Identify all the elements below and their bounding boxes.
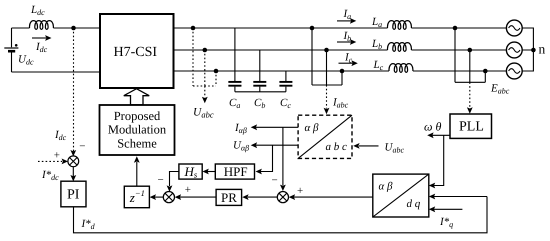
wire Idc dashed measurement — [73, 28, 75, 152]
node Eabc tap b — [468, 48, 473, 53]
summer sum0 — [68, 156, 79, 167]
node Uabc tap b — [203, 48, 208, 53]
box alphabeta-abc transform (dashed) — [298, 115, 352, 158]
inductor Lc — [389, 64, 413, 73]
svg-text:Modulation: Modulation — [108, 123, 167, 137]
svg-text:+: + — [54, 150, 60, 162]
svg-text:+: + — [297, 185, 303, 197]
wire Ialphabeta drop to sum2 — [282, 127, 284, 185]
svg-text:PLL: PLL — [459, 120, 484, 135]
arrow input Id* — [434, 196, 487, 198]
box PI — [61, 181, 86, 207]
svg-text:α β: α β — [305, 122, 320, 134]
summer sum1 — [163, 192, 174, 203]
wire phase B — [174, 49, 388, 51]
box PLL — [450, 114, 492, 138]
node Eabc tap a — [453, 26, 458, 31]
node Iabc tap b — [324, 48, 329, 53]
capacitor Cb — [259, 50, 261, 92]
svg-text:d q: d q — [407, 198, 421, 210]
capacitor Ca — [228, 28, 241, 92]
svg-text:a b c: a b c — [326, 141, 348, 153]
box Proposed Modulation Scheme — [100, 105, 175, 155]
wire capacitor star bus — [235, 91, 286, 93]
inductor Lb — [388, 43, 412, 52]
box HPF — [215, 164, 254, 179]
arrow input Iq* — [434, 208, 462, 210]
wire Eabc bracket — [455, 28, 485, 82]
wire sum2 to PR — [248, 196, 277, 198]
svg-text:HPF: HPF — [224, 164, 248, 179]
svg-text:PI: PI — [67, 188, 80, 203]
wire phase C right — [413, 70, 507, 72]
arrow Ib — [337, 41, 351, 43]
node Iabc tap c — [340, 69, 345, 74]
box Hs — [179, 164, 202, 179]
wire Eabc dotted arrow to PLL — [469, 82, 471, 108]
svg-text:α β: α β — [379, 181, 394, 193]
wire theta to dq block — [434, 135, 444, 185]
capacitor Cc — [285, 71, 287, 92]
wire from Ldc to H7-CSI — [53, 27, 100, 29]
box dq-alphabeta transform — [373, 174, 429, 217]
node dc link (junction dot) — [71, 26, 76, 31]
wire Iabc dotted arrow — [326, 85, 328, 109]
wire Uabc dotted arrow down — [204, 86, 206, 98]
box PR — [216, 189, 242, 205]
arrow Ic — [339, 62, 353, 64]
arrow z-1 to modulation — [136, 162, 138, 186]
svg-text:+: + — [185, 184, 191, 196]
svg-text:Scheme: Scheme — [117, 137, 157, 151]
svg-text:PR: PR — [221, 190, 237, 205]
inductor La — [388, 21, 412, 30]
wire Idc* dashed input — [38, 160, 62, 162]
wire dc bottom — [12, 71, 101, 73]
wire phase C — [174, 70, 390, 72]
wire Ualphabeta tap to HPF — [261, 145, 273, 171]
wire phase A — [174, 27, 388, 29]
arrow Ia — [337, 20, 351, 22]
node Eabc tap c — [483, 69, 488, 74]
op H7-CSI box U1 — [100, 14, 174, 88]
svg-text:−: − — [272, 175, 278, 187]
wire dc source left vertical — [11, 28, 13, 72]
wire PR to sum1 — [180, 196, 216, 198]
box z-1 — [124, 186, 149, 208]
node n — [531, 48, 536, 53]
wire phase B right — [411, 49, 506, 51]
wire Hs to sum1 — [170, 172, 179, 187]
source Ea — [506, 20, 522, 36]
arrow HPF to Hs — [208, 171, 216, 173]
wire phase A right — [411, 27, 506, 29]
svg-text:−: − — [79, 141, 85, 153]
wire neutral bus — [522, 28, 533, 71]
arrow PLL output omega — [433, 134, 451, 136]
wire dc top left — [12, 27, 30, 29]
wire feedback Id* bottom — [74, 197, 488, 233]
source Ec — [506, 63, 522, 79]
wire Uabc dotted bracket — [193, 28, 216, 86]
node Iabc tap a — [310, 26, 315, 31]
block arrow modulation to H7-CSI — [124, 89, 149, 105]
summer sum2 — [277, 192, 288, 203]
inductor Ldc — [30, 21, 54, 30]
wire sum1 to z-1 — [155, 196, 164, 198]
node Uabc tap a — [191, 26, 196, 31]
svg-text:ω θ: ω θ — [424, 120, 441, 134]
svg-text:n: n — [539, 42, 546, 57]
wire Iabc bracket — [312, 28, 342, 85]
svg-text:H7-CSI: H7-CSI — [114, 45, 158, 60]
source Eb — [506, 42, 522, 58]
wire sum0 to PI — [72, 167, 74, 177]
svg-text:Proposed: Proposed — [114, 109, 161, 123]
arrow Ialphabeta output — [256, 126, 298, 128]
arrow Idc — [32, 37, 46, 39]
arrow Ualphabeta output — [256, 144, 298, 146]
wire dq output to sum2 — [294, 196, 373, 198]
arrow Uabc input stub — [359, 145, 379, 147]
battery Udc — [4, 47, 18, 49]
node Uabc tap c — [214, 69, 219, 74]
svg-text:−: − — [158, 174, 164, 186]
